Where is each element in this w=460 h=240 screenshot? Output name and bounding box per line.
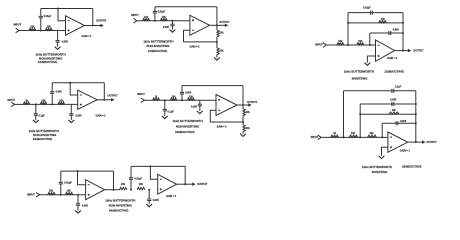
caption circuit 2 line 1 xyxy=(143,39,173,43)
junction stage1 output node xyxy=(113,189,115,191)
wire U4 output xyxy=(97,98,111,102)
capacitor C6 xyxy=(389,31,391,35)
caption circuit 5 line 1 xyxy=(173,119,203,123)
svg-text:0.1µF: 0.1µF xyxy=(168,110,175,113)
node H junction xyxy=(164,99,166,101)
junction inverting tap 7b xyxy=(149,165,151,167)
gain label U4 xyxy=(95,115,106,118)
ground for C2 xyxy=(55,47,61,50)
output arrow 4 xyxy=(111,98,114,102)
wire feedback line C14 xyxy=(360,102,416,106)
wire to U1 inverting input xyxy=(58,9,66,21)
node VIN7 / input label xyxy=(27,194,35,197)
svg-text:10k: 10k xyxy=(220,50,225,53)
junction bus6 line4 xyxy=(415,122,417,124)
wire C9 to ground xyxy=(69,115,73,120)
gain label U2 xyxy=(189,45,200,48)
svg-text:INPUT: INPUT xyxy=(131,14,139,17)
wire feedback down 7a xyxy=(112,171,116,190)
wire node J up xyxy=(342,91,346,138)
resistor R15 xyxy=(187,98,194,100)
resistor R19 value 10k xyxy=(351,132,356,135)
svg-text:1k: 1k xyxy=(25,99,28,102)
capacitor C7 xyxy=(34,114,38,116)
svg-text:INPUT: INPUT xyxy=(137,93,145,96)
wire U8 output xyxy=(177,182,193,186)
caption circuit 7 line 2 xyxy=(109,204,133,208)
svg-text:0.01µF: 0.01µF xyxy=(44,15,52,18)
svg-text:10k: 10k xyxy=(246,111,251,114)
node VIN4 / input label xyxy=(8,99,16,102)
ground for U6 + xyxy=(379,156,385,159)
wire R16 to divider node 5 xyxy=(241,116,245,125)
caption circuit 2 line 2 xyxy=(146,44,170,48)
node VOUT5 / output label xyxy=(247,101,258,104)
resistor R9 feedback xyxy=(379,21,387,23)
capacitor C19 value 0.005 xyxy=(153,199,160,202)
svg-text:NON-INVERTING: NON-INVERTING xyxy=(146,44,170,48)
resistor R17 to ground xyxy=(243,125,245,132)
svg-text:0.005: 0.005 xyxy=(163,26,170,29)
resistor R2 value 10k xyxy=(47,26,52,29)
resistor R22 xyxy=(48,193,56,195)
resistor R12 xyxy=(58,102,65,104)
ground for C12 xyxy=(197,111,203,114)
capacitor C12 xyxy=(198,104,202,106)
capacitor C14 xyxy=(392,102,394,106)
wire C16 to feedback line xyxy=(59,171,63,182)
resistor R24 xyxy=(120,187,128,189)
svg-text:18dB/OCTAVE: 18dB/OCTAVE xyxy=(402,165,422,169)
wire U6 + to ground xyxy=(382,147,388,156)
resistor R25 xyxy=(137,187,145,189)
svg-text:GAIN = 2: GAIN = 2 xyxy=(217,126,228,129)
gain label U8 xyxy=(166,195,177,198)
svg-text:0.005: 0.005 xyxy=(62,41,69,44)
junction output node 4 xyxy=(103,99,105,101)
node Q junction xyxy=(148,189,150,191)
svg-text:1kHz BUTTERWORTH: 1kHz BUTTERWORTH xyxy=(143,39,173,43)
resistor R5 feedback xyxy=(217,30,219,37)
wire R5 to divider node xyxy=(215,37,219,48)
svg-text:0.005: 0.005 xyxy=(390,99,397,102)
node VIN1 / input label xyxy=(14,24,22,27)
resistor R22 value 10k xyxy=(49,190,54,193)
ground for U3 + xyxy=(365,63,371,66)
junction bus6 line3 xyxy=(415,113,417,115)
caption circuit 6 line 2 xyxy=(372,170,388,174)
node B junction xyxy=(154,20,156,22)
input terminal arrow xyxy=(16,28,19,33)
svg-text:INPUT: INPUT xyxy=(315,44,323,47)
resistor R14 xyxy=(170,98,176,100)
resistor R6 to ground xyxy=(217,48,219,55)
resistor R4 value 10k xyxy=(162,16,167,19)
wire input to op-amp U6 - xyxy=(321,135,388,139)
output arrow 3 xyxy=(408,49,411,53)
svg-text:10k: 10k xyxy=(162,16,167,19)
capacitor C3 xyxy=(153,12,157,14)
junction node K at line3 xyxy=(359,113,361,115)
gain label U1 xyxy=(81,35,92,38)
caption circuit 5 line 2 xyxy=(176,125,200,129)
node K junction xyxy=(359,136,361,138)
wire node A up to C1 xyxy=(39,18,43,31)
svg-text:18dB/OCTAVE: 18dB/OCTAVE xyxy=(33,137,53,141)
svg-text:10k: 10k xyxy=(47,26,52,29)
wire C7 drop xyxy=(34,104,38,113)
svg-text:INPUT: INPUT xyxy=(14,24,22,27)
svg-text:0.01µF: 0.01µF xyxy=(64,181,72,184)
junction output node xyxy=(92,25,94,27)
resistor R8 xyxy=(357,43,364,45)
caption circuit 4 line 3 xyxy=(33,137,53,141)
capacitor C14 value 0.005 xyxy=(390,99,397,102)
op-amp U2 xyxy=(190,15,210,35)
svg-text:10k: 10k xyxy=(358,40,363,43)
svg-text:10k: 10k xyxy=(67,190,72,193)
node VIN5 / input label xyxy=(137,93,145,96)
node J junction xyxy=(343,136,345,138)
capacitor C4 xyxy=(170,24,174,26)
op-amp U1 xyxy=(66,16,85,35)
svg-text:NON-INVERTING: NON-INVERTING xyxy=(39,56,63,60)
svg-text:10k: 10k xyxy=(59,99,64,102)
input terminal arrow 5 xyxy=(141,98,144,103)
svg-text:OUTPUT: OUTPUT xyxy=(107,94,118,97)
node VIN3 / input label xyxy=(315,44,323,47)
svg-text:1k: 1k xyxy=(333,132,336,135)
wire feedback line R9 xyxy=(348,21,403,25)
output arrow xyxy=(100,24,103,28)
capacitor C8 xyxy=(50,92,54,94)
ground for C17 xyxy=(75,210,81,213)
capacitor C8 value 0.005 xyxy=(56,91,63,94)
wire node K up xyxy=(358,104,362,137)
wire feedback down right xyxy=(215,7,219,30)
resistor R2 xyxy=(45,28,52,30)
wire divider to U2 inverting xyxy=(184,30,217,42)
capacitor C4 value 0.005 xyxy=(163,26,170,29)
wire feedback line C6 xyxy=(370,31,403,35)
op-amp U6 xyxy=(388,132,408,152)
node F junction xyxy=(35,103,37,105)
junction bus6 line2 xyxy=(415,103,417,105)
resistor R1 value 10k xyxy=(30,26,35,29)
wire input to op-amp U7 + xyxy=(39,193,85,197)
gain label U6 xyxy=(400,149,411,152)
wire C4 drop xyxy=(171,21,175,25)
capacitor C9 value 0.005 xyxy=(76,114,83,117)
svg-text:OUTPUT: OUTPUT xyxy=(96,19,107,22)
node VOUT7 / output label xyxy=(197,183,208,186)
resistor R18 value 1k xyxy=(333,132,336,135)
wire feedback top line 7b xyxy=(131,164,185,168)
svg-text:10k: 10k xyxy=(121,183,126,186)
capacitor C12 value 0.005 xyxy=(191,106,198,109)
wire C17 drop xyxy=(76,195,80,204)
wire C4 to ground xyxy=(171,26,175,30)
wire divider to U5 inverting xyxy=(210,110,243,122)
capacitor C10 value xyxy=(168,110,175,113)
resistor R21 value 10k xyxy=(392,109,397,112)
wire C17 to ground xyxy=(76,205,80,210)
wire feedback top line 7a xyxy=(61,169,114,173)
wire node E up xyxy=(368,33,372,45)
caption circuit 1 line 3 xyxy=(38,60,58,64)
wire R6 to ground xyxy=(215,55,219,58)
capacitor C2 xyxy=(56,41,60,43)
resistor R19 xyxy=(349,135,358,137)
capacitor C6 value 0.005 xyxy=(393,29,400,32)
wire node L up xyxy=(380,123,384,137)
wire feedback top line 4 xyxy=(52,81,104,85)
wire feedback line C5 xyxy=(348,11,403,15)
capacitor C18 xyxy=(129,178,133,180)
resistor R16 feedback xyxy=(243,109,245,116)
svg-text:10k: 10k xyxy=(30,26,35,29)
capacitor C1 value xyxy=(44,15,52,18)
node VIN2 / input label xyxy=(131,14,139,17)
wire node D up xyxy=(346,13,350,45)
svg-text:10k: 10k xyxy=(144,16,149,19)
svg-text:10k: 10k xyxy=(392,109,397,112)
junction output node 3 xyxy=(402,50,404,52)
svg-text:NON-INVERTING: NON-INVERTING xyxy=(33,133,57,137)
resistor R3 xyxy=(143,19,150,21)
op-amp U7 xyxy=(86,180,105,200)
wire node P up to C18 xyxy=(129,179,133,190)
wire input to op-amp U5 + xyxy=(144,98,216,102)
capacitor C10 xyxy=(163,109,167,111)
svg-text:10k: 10k xyxy=(351,132,356,135)
resistor R23 value 10k xyxy=(67,190,72,193)
svg-text:0.01µF: 0.01µF xyxy=(158,11,166,14)
svg-text:0.005: 0.005 xyxy=(153,199,160,202)
svg-text:1kHz BUTTERWORTH: 1kHz BUTTERWORTH xyxy=(344,69,374,73)
svg-text:0.005: 0.005 xyxy=(82,204,89,207)
svg-text:OUTPUT: OUTPUT xyxy=(197,183,208,186)
svg-text:12dB/OCTAVE: 12dB/OCTAVE xyxy=(38,60,58,64)
svg-text:GAIN = 1: GAIN = 1 xyxy=(95,115,106,118)
ground for C19 xyxy=(146,204,152,207)
wire C2 drop xyxy=(56,31,60,41)
svg-text:INVERTING: INVERTING xyxy=(352,77,368,81)
svg-text:INVERTING: INVERTING xyxy=(372,170,388,174)
svg-text:1kHz BUTTERWORTH: 1kHz BUTTERWORTH xyxy=(362,165,392,169)
input terminal arrow 7 xyxy=(36,193,39,198)
svg-text:24dB/OCTAVE: 24dB/OCTAVE xyxy=(109,208,129,212)
resistor R7 value 10k xyxy=(338,40,343,43)
capacitor C3 value xyxy=(158,11,166,14)
node I junction xyxy=(181,99,183,101)
capacitor C5 value xyxy=(363,7,371,10)
svg-text:10k: 10k xyxy=(246,127,251,130)
resistor R20 xyxy=(368,135,377,137)
svg-text:0.01µF: 0.01µF xyxy=(363,7,371,10)
op-amp U5 xyxy=(216,95,237,116)
gain label U3 xyxy=(387,57,398,60)
svg-text:GAIN = 1: GAIN = 1 xyxy=(81,35,92,38)
capacitor C5 xyxy=(370,11,372,15)
caption circuit 3 line 1 xyxy=(344,69,374,73)
wire C9 drop xyxy=(69,104,73,113)
svg-text:18dB/OCTAVE: 18dB/OCTAVE xyxy=(175,130,195,134)
wire feedback down to output 4 xyxy=(102,83,106,100)
resistor R23 xyxy=(65,193,73,195)
node VOUT2 / output label xyxy=(219,21,230,24)
capacitor C2 value 0.005 xyxy=(62,41,69,44)
svg-text:10k: 10k xyxy=(220,31,225,34)
svg-text:12dB/OCTAVE: 12dB/OCTAVE xyxy=(148,49,168,53)
gain label U5 xyxy=(217,126,228,129)
wire feedback line C13 xyxy=(344,89,416,93)
svg-text:INPUT: INPUT xyxy=(8,99,16,102)
junction node D at line2 xyxy=(347,22,349,24)
caption circuit 4 line 1 xyxy=(29,129,59,133)
junction output node 5 xyxy=(242,104,244,106)
resistor R12 value 10k xyxy=(59,99,64,102)
capacitor C16 xyxy=(59,182,63,184)
wire U7 output to stage 2 xyxy=(105,188,120,192)
wire node M up to C16 xyxy=(59,184,63,195)
svg-text:1kHz BUTTERWORTH: 1kHz BUTTERWORTH xyxy=(36,52,66,56)
capacitor C7 value xyxy=(39,114,46,117)
junction output node 2 xyxy=(216,24,218,26)
ground for C7 xyxy=(33,120,39,123)
caption circuit 4 line 2 xyxy=(33,133,57,137)
wire feedback down right 5 xyxy=(241,86,245,109)
resistor R6 value 10k xyxy=(220,50,225,53)
input terminal arrow 4 xyxy=(11,102,14,107)
output arrow 7 xyxy=(192,182,195,186)
junction output node 7 xyxy=(184,183,186,185)
resistor R16 value 10k xyxy=(246,111,251,114)
svg-text:0.005: 0.005 xyxy=(185,92,192,95)
node M junction xyxy=(60,194,62,196)
caption circuit 7 line 3 xyxy=(109,208,129,212)
svg-text:10k: 10k xyxy=(49,190,54,193)
wire input to op-amp U4 + xyxy=(15,102,78,106)
junction bus line2 xyxy=(402,22,404,24)
ground for R6 xyxy=(214,57,220,60)
caption circuit 6 right xyxy=(402,165,422,169)
capacitor C18 value xyxy=(135,177,143,180)
op-amp U3 xyxy=(376,40,395,61)
resistor R25 value 10k xyxy=(139,183,144,186)
wire C2 to ground xyxy=(56,42,60,47)
svg-text:OUTPUT: OUTPUT xyxy=(247,101,258,104)
svg-text:10k: 10k xyxy=(171,95,176,98)
svg-text:10k: 10k xyxy=(41,99,46,102)
junction output node 6 xyxy=(415,141,417,143)
wire R17 to ground xyxy=(241,132,245,134)
wire U3 output xyxy=(395,49,408,53)
svg-text:0.005: 0.005 xyxy=(56,91,63,94)
capacitor C13 value xyxy=(395,85,402,88)
wire C12 drop xyxy=(198,100,202,104)
wire to U7 inverting input xyxy=(78,171,86,185)
caption circuit 1 line 1 xyxy=(36,52,66,56)
svg-text:OUTPUT: OUTPUT xyxy=(219,21,230,24)
svg-text:0.005: 0.005 xyxy=(393,29,400,32)
input terminal arrow 6 xyxy=(318,135,321,140)
wire U5 output xyxy=(237,103,249,107)
svg-text:OUTPUT: OUTPUT xyxy=(426,141,437,144)
svg-text:0.01µF: 0.01µF xyxy=(135,177,143,180)
svg-text:0.005: 0.005 xyxy=(400,120,407,123)
wire feedback top line 2 xyxy=(155,5,217,9)
resistor R3 value 10k xyxy=(144,16,149,19)
resistor R8 value 10k xyxy=(358,40,363,43)
wire right feedback bus 6 xyxy=(414,91,418,142)
caption circuit 2 line 3 xyxy=(148,49,168,53)
wire right feedback bus xyxy=(401,13,405,51)
node C junction xyxy=(172,20,174,22)
op-amp U4 xyxy=(78,90,98,109)
resistor R9 value 10k xyxy=(381,18,386,21)
svg-text:0.1µF: 0.1µF xyxy=(39,114,46,117)
capacitor C11 value 0.005 xyxy=(185,92,192,95)
wire C7 to ground xyxy=(34,115,38,120)
svg-text:INPUT: INPUT xyxy=(27,194,35,197)
capacitor C9 xyxy=(69,114,73,116)
svg-text:10k: 10k xyxy=(189,95,194,98)
svg-text:GAIN = 1: GAIN = 1 xyxy=(166,195,177,198)
wire feedback down 7b xyxy=(183,166,187,184)
svg-text:10k: 10k xyxy=(139,183,144,186)
output arrow 2 xyxy=(225,24,228,28)
wire C3 to feedback line xyxy=(153,7,157,12)
output arrow 5 xyxy=(248,103,251,107)
resistor R15 value 10k xyxy=(189,95,194,98)
node VIN6 / input label xyxy=(311,136,319,139)
capacitor C15 value 0.005 xyxy=(400,120,407,123)
junction at inverting tap xyxy=(57,8,59,10)
wire U1 output xyxy=(85,24,102,28)
wire feedback top line xyxy=(41,7,93,11)
wire C8 to feedback line xyxy=(50,83,54,92)
capacitor C11 xyxy=(180,92,184,94)
svg-text:0.005: 0.005 xyxy=(191,106,198,109)
wire U3 + to ground xyxy=(367,56,375,63)
node VOUT6 / output label xyxy=(426,141,437,144)
svg-text:10k: 10k xyxy=(381,18,386,21)
resistor R17 value 10k xyxy=(246,127,251,130)
wire feedback line R21 xyxy=(360,112,416,116)
node VOUT1 / output label xyxy=(96,19,107,22)
svg-text:1kHz BUTTERWORTH: 1kHz BUTTERWORTH xyxy=(29,129,59,133)
wire C10 drop xyxy=(163,100,167,109)
svg-text:INPUT: INPUT xyxy=(311,136,319,139)
ground for C10 xyxy=(162,116,168,119)
ground for C9 xyxy=(68,120,74,123)
capacitor C16 value xyxy=(64,181,72,184)
junction bus line3 xyxy=(402,32,404,34)
capacitor C19 xyxy=(147,199,151,201)
capacitor C15 xyxy=(396,121,398,125)
resistor R13 xyxy=(153,98,160,100)
svg-text:GAIN = 1: GAIN = 1 xyxy=(387,57,398,60)
wire U6 output xyxy=(408,140,423,144)
node VOUT4 / output label xyxy=(107,94,118,97)
caption circuit 7 line 1 xyxy=(105,198,135,202)
resistor R11 xyxy=(40,102,47,104)
input terminal arrow 2 xyxy=(134,19,137,24)
resistor R20 value 10k xyxy=(369,132,374,135)
resistor R13 value 1k xyxy=(155,95,158,98)
caption circuit 1 line 2 xyxy=(39,56,63,60)
